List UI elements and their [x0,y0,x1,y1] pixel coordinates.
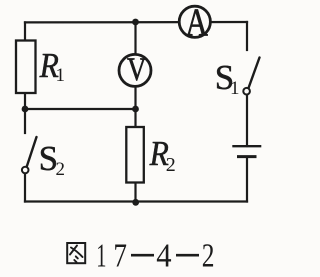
svg-text:7: 7 [113,236,127,274]
svg-text:V: V [127,51,147,87]
caption: 17-4-2 [96,236,214,275]
voltmeter V [119,51,151,87]
svg-text:1: 1 [230,78,240,99]
svg-text:1: 1 [96,237,106,275]
wire R2 to bottom junction [134,182,136,202]
caption: 图 (drawn) [67,243,85,263]
resistor R2 [126,127,175,183]
svg-text:2: 2 [56,159,66,180]
wire left (top corner to R1) [24,22,26,41]
wire S2 to bottom corner [24,174,26,202]
caption dash 1 [131,254,154,257]
battery cell [232,146,261,156]
wire battery to bottom-right corner [246,157,248,202]
wire voltmeter to junction B [134,86,136,109]
node junction bottom [132,199,139,206]
svg-text:2: 2 [166,154,176,176]
wire bottom [25,200,247,202]
wire junction B to R2 [134,109,136,128]
svg-text:A: A [185,1,208,44]
svg-text:2: 2 [202,236,215,274]
ammeter A [179,1,210,44]
switch S1 [215,58,260,100]
wire S1 to battery [246,95,248,147]
wire junction A to switch S2 [24,109,26,133]
wire top [25,21,247,24]
resistor R1 [16,41,65,94]
caption dash 2 [176,254,199,257]
wire top-right corner down to S1 [246,22,248,50]
wire top junction to voltmeter [134,22,136,56]
node junction B (mid) [132,106,139,113]
switch S2 [22,137,65,180]
svg-text:1: 1 [56,65,66,86]
node junction top (voltmeter tap) [132,19,139,26]
node junction A (left mid) [22,106,29,113]
svg-text:4: 4 [156,236,171,274]
wire middle horizontal [25,108,136,110]
wire R1 to junction A [24,92,26,109]
